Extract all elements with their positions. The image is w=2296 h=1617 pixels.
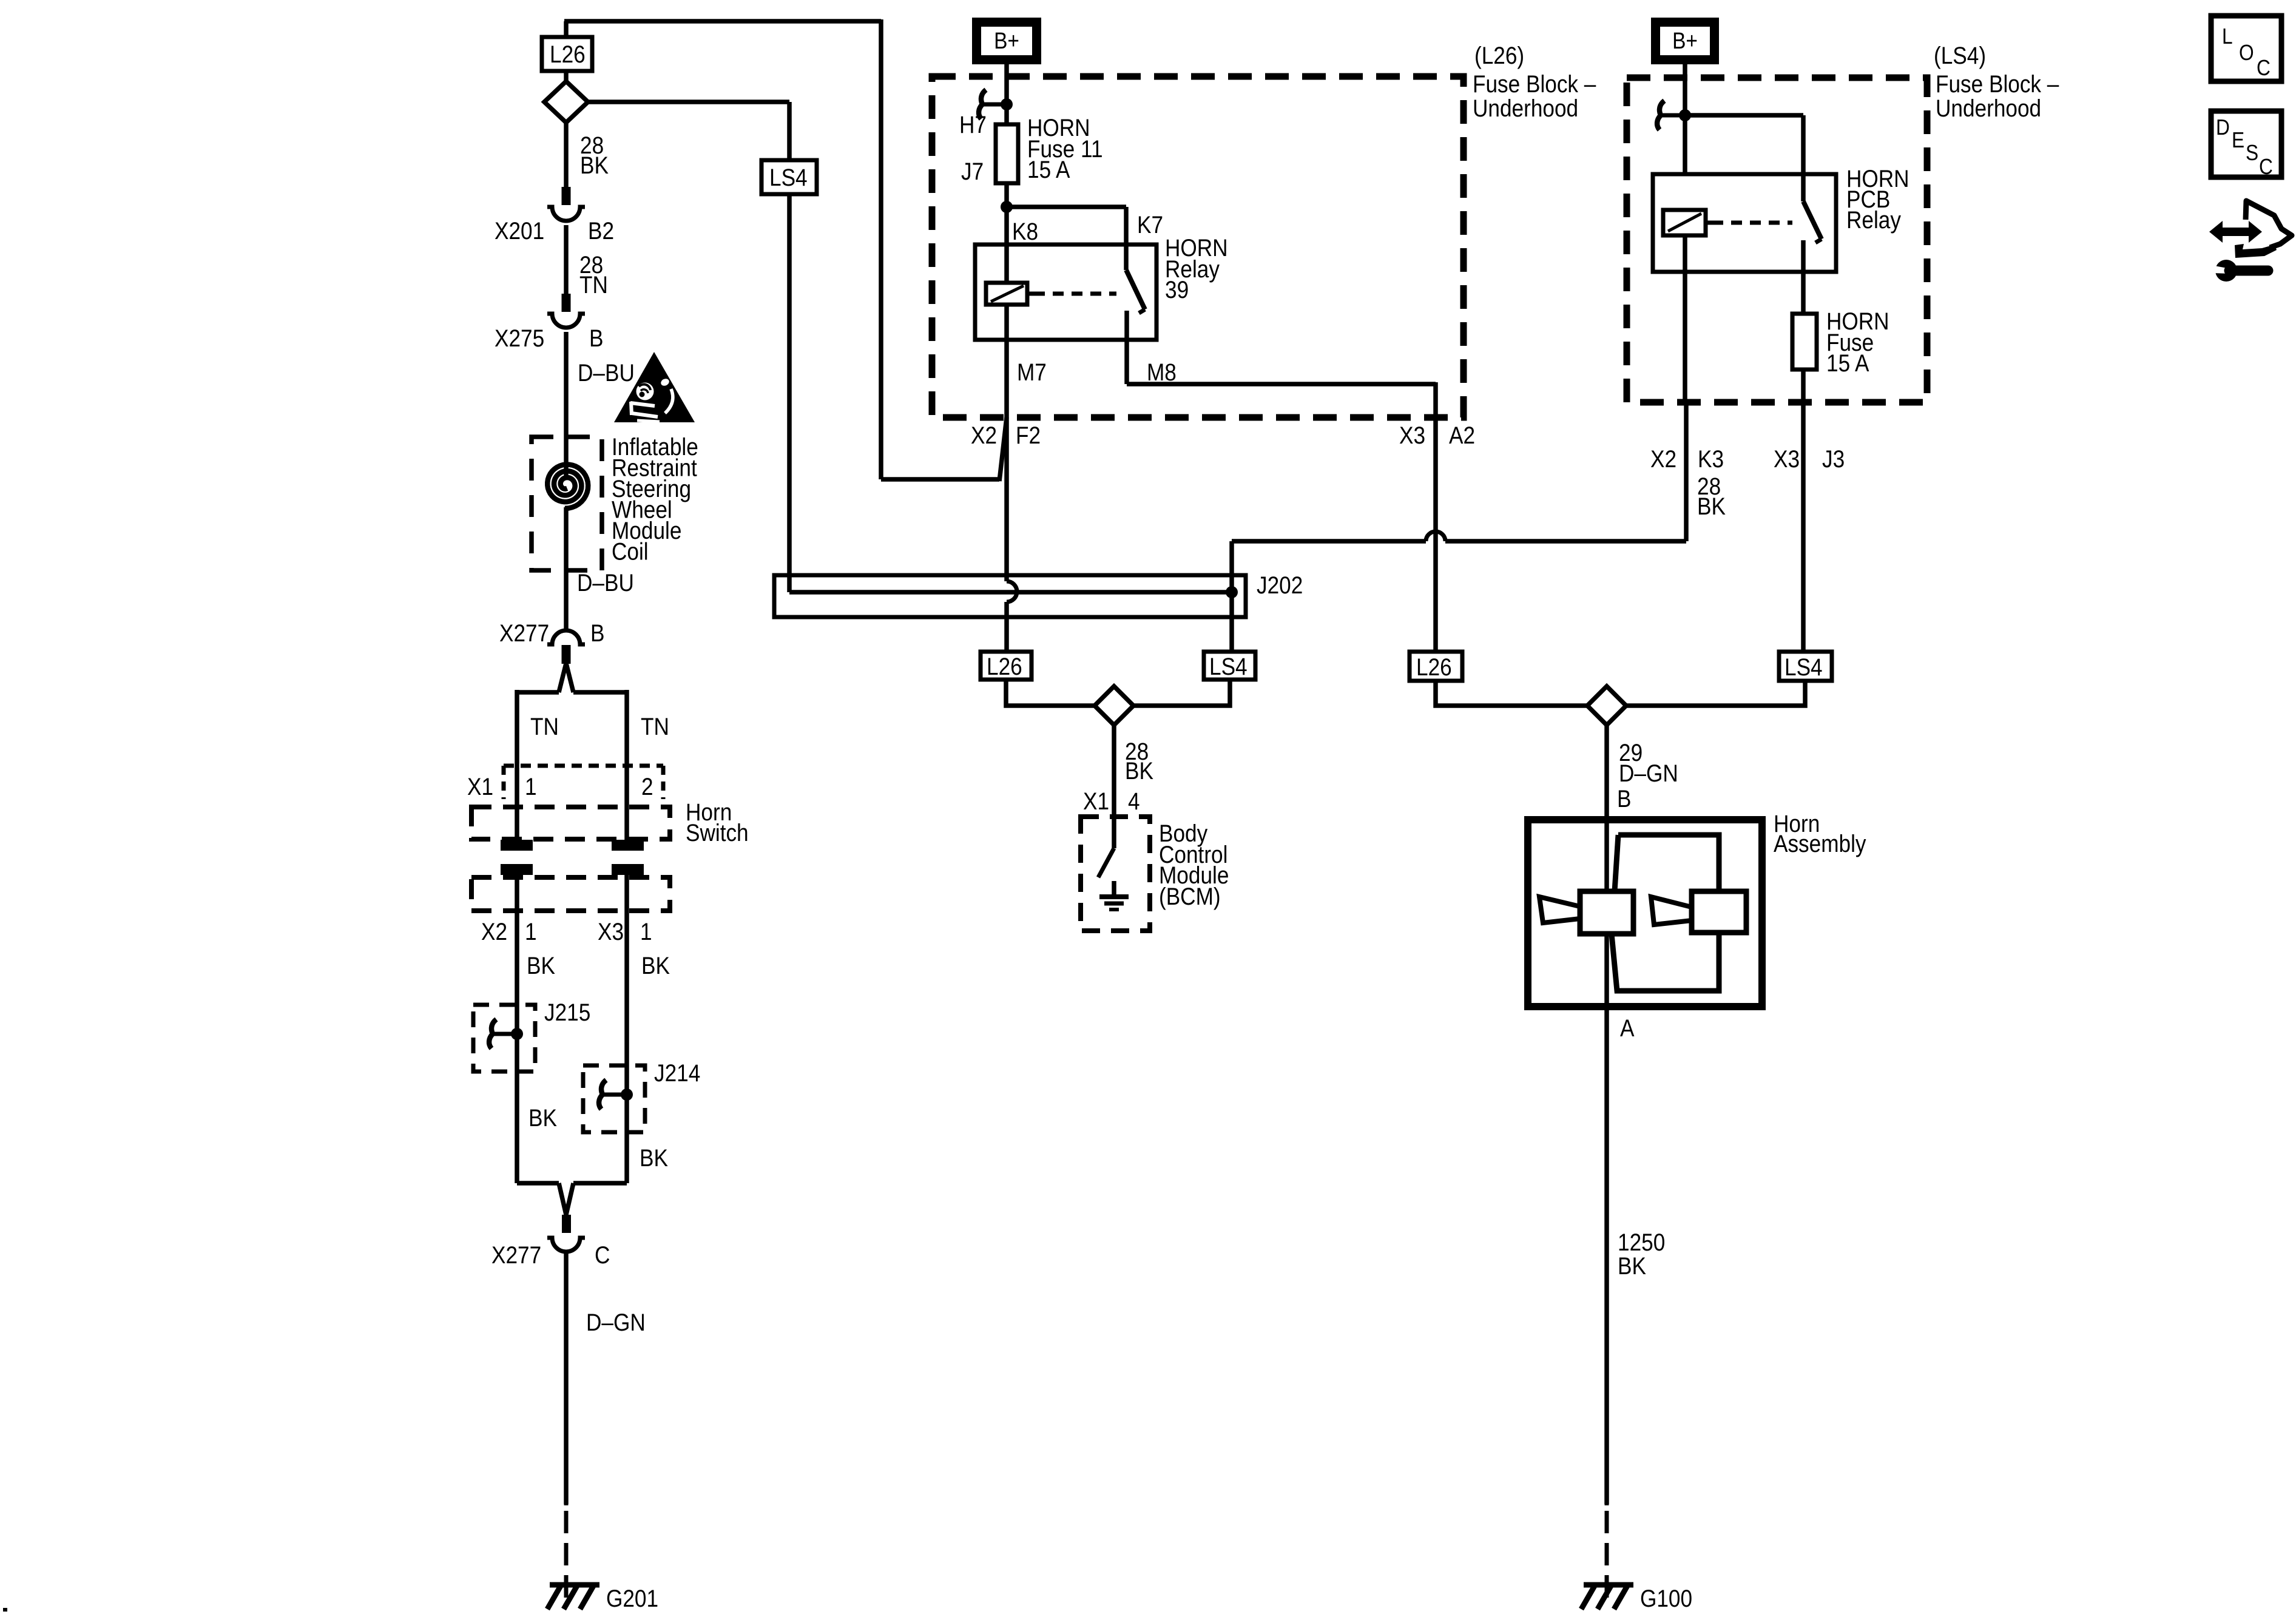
svg-text:TN: TN [641, 713, 669, 740]
svg-text:LS4: LS4 [769, 164, 808, 191]
svg-text:G201: G201 [606, 1585, 658, 1612]
svg-text:4: 4 [1128, 788, 1140, 815]
svg-text:K7: K7 [1137, 211, 1163, 238]
svg-text:39: 39 [1165, 276, 1189, 303]
svg-text:L26: L26 [1416, 653, 1452, 681]
svg-text:Fuse Block –: Fuse Block – [1936, 70, 2059, 98]
svg-text:X3: X3 [1774, 445, 1800, 473]
svg-text:X2: X2 [971, 422, 997, 449]
svg-text:Fuse Block –: Fuse Block – [1473, 70, 1596, 98]
svg-text:L26: L26 [550, 41, 586, 68]
svg-text:X1: X1 [1083, 788, 1109, 815]
svg-text:BK: BK [528, 1104, 557, 1132]
svg-text:D–GN: D–GN [586, 1309, 646, 1336]
svg-text:BK: BK [1697, 493, 1726, 520]
svg-text:BK: BK [1618, 1252, 1646, 1280]
svg-text:Underhood: Underhood [1473, 95, 1578, 122]
svg-text:X277: X277 [499, 619, 549, 647]
svg-text:15 A: 15 A [1826, 349, 1869, 377]
svg-text:X1: X1 [467, 773, 493, 800]
svg-text:LS4: LS4 [1784, 653, 1823, 681]
svg-text:M7: M7 [1017, 359, 1047, 386]
svg-text:K8: K8 [1012, 218, 1038, 245]
svg-text:BK: BK [1125, 757, 1153, 785]
svg-text:X3: X3 [1399, 422, 1425, 449]
svg-text:J214: J214 [654, 1059, 700, 1087]
svg-text:D–BU: D–BU [577, 569, 634, 596]
svg-text:Underhood: Underhood [1936, 95, 2041, 122]
svg-text:B: B [590, 619, 604, 647]
svg-text:1250: 1250 [1618, 1229, 1665, 1256]
svg-text:15 A: 15 A [1027, 156, 1070, 183]
svg-text:X2: X2 [1650, 445, 1676, 473]
svg-text:E: E [2232, 128, 2244, 152]
svg-text:J3: J3 [1822, 445, 1845, 473]
svg-text:O: O [2239, 41, 2254, 65]
svg-text:(L26): (L26) [1474, 42, 1524, 69]
svg-text:BK: BK [641, 952, 670, 979]
svg-text:J202: J202 [1257, 572, 1303, 599]
svg-text:D: D [2216, 115, 2230, 140]
svg-text:Assembly: Assembly [1774, 830, 1866, 857]
svg-text:H7: H7 [959, 111, 987, 138]
svg-text:Relay: Relay [1846, 206, 1901, 234]
svg-text:C: C [2259, 155, 2273, 179]
svg-text:S: S [2246, 141, 2258, 165]
svg-text:LS4: LS4 [1209, 653, 1248, 680]
svg-text:Switch: Switch [686, 819, 749, 846]
svg-text:1: 1 [525, 773, 537, 800]
svg-text:BK: BK [640, 1144, 668, 1172]
svg-text:L26: L26 [987, 653, 1022, 680]
svg-text:G100: G100 [1640, 1585, 1692, 1612]
svg-text:TN: TN [579, 271, 608, 299]
svg-text:L: L [2222, 24, 2233, 49]
svg-text:X2: X2 [481, 918, 507, 945]
svg-text:B+: B+ [1672, 28, 1698, 53]
svg-text:C: C [595, 1241, 610, 1269]
svg-text:F2: F2 [1016, 422, 1041, 449]
svg-text:J215: J215 [544, 999, 590, 1026]
svg-text:B: B [589, 325, 603, 352]
svg-text:1: 1 [640, 918, 652, 945]
svg-text:X277: X277 [491, 1241, 541, 1269]
svg-text:B+: B+ [994, 28, 1019, 53]
svg-text:(BCM): (BCM) [1159, 883, 1221, 910]
svg-text:X3: X3 [598, 918, 624, 945]
svg-text:M8: M8 [1147, 359, 1177, 386]
svg-text:1: 1 [525, 918, 537, 945]
svg-text:D–BU: D–BU [578, 359, 635, 387]
svg-text:X201: X201 [495, 217, 544, 245]
svg-text:TN: TN [530, 713, 559, 740]
svg-text:BK: BK [527, 952, 555, 979]
svg-text:Coil: Coil [612, 538, 649, 565]
svg-text:X275: X275 [495, 325, 544, 352]
svg-text:C: C [2257, 56, 2271, 80]
svg-text:D–GN: D–GN [1619, 760, 1678, 787]
svg-text:A2: A2 [1449, 422, 1475, 449]
svg-text:K3: K3 [1698, 445, 1724, 473]
svg-text:A: A [1620, 1014, 1635, 1042]
svg-text:B: B [1617, 785, 1631, 812]
svg-text:BK: BK [580, 152, 609, 179]
svg-text:J7: J7 [961, 158, 984, 185]
svg-text:2: 2 [641, 773, 653, 800]
svg-text:B2: B2 [588, 217, 614, 245]
svg-text:(LS4): (LS4) [1934, 42, 1986, 69]
